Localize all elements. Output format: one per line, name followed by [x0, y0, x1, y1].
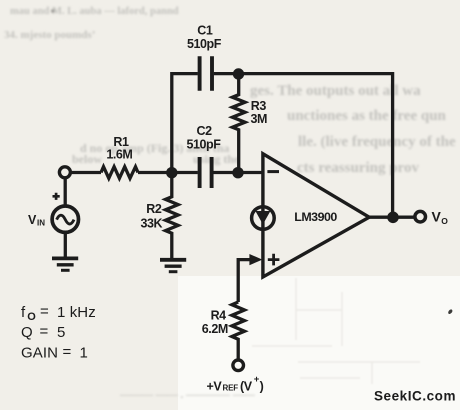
wire node C to op-amp inverting input — [238, 171, 263, 174]
svg-text:Q: Q — [21, 324, 33, 341]
label LM3900 — [294, 210, 337, 224]
node B (top junction dot) — [233, 68, 244, 79]
svg-text:5: 5 — [57, 324, 65, 341]
node D (output junction dot) — [387, 212, 399, 224]
svg-text:(V: (V — [240, 379, 253, 393]
formula GAIN = 1 — [21, 344, 88, 362]
label C1 — [187, 23, 222, 51]
svg-text:R4: R4 — [211, 309, 227, 323]
svg-text:510pF: 510pF — [187, 37, 222, 51]
svg-text:34. mjesto poumds’: 34. mjesto poumds’ — [4, 29, 95, 41]
VREF terminal (open circle) — [233, 360, 244, 371]
node A (junction dot) — [166, 167, 177, 178]
svg-text:R2: R2 — [146, 202, 162, 216]
output wire op-amp to Vo terminal — [369, 216, 415, 219]
svg-text:below: below — [72, 152, 102, 166]
wire R1 to node A — [138, 171, 168, 174]
svg-text:): ) — [260, 379, 264, 393]
Vo terminal (open circle) — [415, 211, 426, 222]
wire node A to C2 — [172, 171, 198, 174]
resistor R3 — [232, 74, 245, 173]
svg-text:IN: IN — [37, 219, 45, 228]
watermark SeekIC.com — [374, 389, 456, 404]
svg-text:=: = — [63, 344, 72, 361]
svg-text:1.6M: 1.6M — [106, 148, 132, 162]
VIN source V1 (AC) — [52, 206, 78, 232]
svg-text:LM3900: LM3900 — [294, 210, 337, 224]
svg-text:O: O — [441, 216, 448, 226]
label C2 — [187, 124, 222, 152]
svg-text:R1: R1 — [113, 135, 129, 149]
ground under VIN — [52, 256, 78, 260]
formula fo = 1 kHz — [21, 303, 96, 323]
svg-text:SeekIC.com: SeekIC.com — [374, 389, 456, 404]
resistor R4 — [232, 302, 245, 360]
wire C1 to node B — [214, 72, 239, 75]
svg-text:R3: R3 — [251, 99, 267, 113]
wire VIN to ground — [64, 232, 67, 257]
input terminal (open circle) — [59, 167, 70, 178]
non-inverting input wire with arrow — [238, 260, 250, 302]
svg-text:mau and M. L. auba — laford, p: mau and M. L. auba — laford, pannd — [10, 6, 179, 17]
svg-text:lle. (live frequency of the: lle. (live frequency of the — [298, 134, 456, 150]
svg-text:=: = — [40, 323, 49, 340]
svg-text:510pF: 510pF — [187, 138, 222, 152]
op-amp U1 triangle — [263, 154, 369, 277]
svg-text:cts reassuring prov: cts reassuring prov — [297, 160, 419, 176]
svg-text:6.2M: 6.2M — [202, 322, 228, 336]
wire input terminal to R1 — [70, 171, 101, 174]
svg-text:GAIN: GAIN — [21, 345, 58, 362]
svg-text:1 kHz: 1 kHz — [57, 304, 96, 321]
svg-text:C2: C2 — [197, 124, 213, 138]
svg-text:ges. The outputs out all wa: ges. The outputs out all wa — [250, 83, 421, 99]
label +VREF (V+) — [207, 374, 264, 393]
svg-text:V: V — [432, 209, 442, 225]
formula Q = 5 — [21, 323, 65, 341]
svg-text:V: V — [28, 213, 37, 227]
feedback wire node B to output node D — [239, 74, 393, 218]
label R2 — [141, 202, 163, 231]
capacitor C2 — [200, 157, 212, 188]
ground under R2 — [160, 258, 186, 262]
label R3 — [251, 99, 268, 126]
svg-text:REF: REF — [223, 384, 239, 393]
svg-text:C1: C1 — [197, 23, 213, 37]
label R1 — [106, 135, 132, 162]
label Vo — [432, 209, 449, 226]
svg-text:+V: +V — [207, 379, 223, 393]
current source symbol inside op-amp — [252, 207, 275, 230]
node C (inverting input junction dot) — [232, 167, 243, 178]
wire input terminal down to VIN source — [64, 178, 67, 206]
plus sign (non-inverting input) — [268, 254, 280, 266]
plus polarity mark — [53, 193, 60, 200]
resistor R1 — [101, 167, 138, 179]
svg-text:f: f — [21, 304, 26, 321]
label R4 — [202, 309, 228, 337]
wire node A up to C1 — [172, 74, 198, 173]
minus sign (inverting input) — [267, 170, 279, 173]
svg-text:=: = — [40, 303, 49, 320]
svg-text:1: 1 — [80, 345, 88, 362]
svg-text:unctiones as the free qun: unctiones as the free qun — [287, 108, 447, 124]
label VIN — [28, 213, 45, 227]
wire C2 to node C — [214, 171, 239, 174]
svg-text:3M: 3M — [251, 112, 268, 126]
capacitor C1 — [200, 56, 212, 90]
svg-text:33K: 33K — [141, 216, 163, 230]
resistor R2 — [166, 173, 179, 258]
svg-text:O: O — [27, 311, 36, 323]
